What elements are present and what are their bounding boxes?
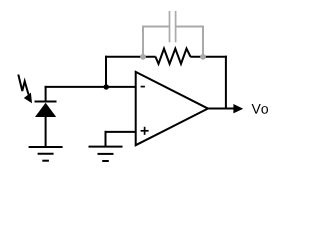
- wire feedback top right: [190, 56, 227, 58]
- wire op-amp noninverting input: [105, 131, 137, 133]
- op-amp plus label: [141, 127, 149, 135]
- wire photodiode top to op-amp inverting input: [45, 86, 136, 88]
- capacitor Cf left plate: [169, 11, 171, 42]
- wire gray top right: [176, 26, 204, 28]
- photodiode D1 cathode bar: [35, 101, 57, 103]
- light arrow (incident light on photodiode): [18, 75, 28, 95]
- resistor Rf zigzag: [156, 49, 191, 64]
- wire gray right riser: [202, 26, 204, 57]
- wire photodiode to ground: [45, 116, 47, 147]
- ground (photodiode): [29, 147, 63, 161]
- output arrowhead: [233, 104, 243, 113]
- capacitor Cf right plate: [175, 11, 177, 42]
- ground (noninverting input): [89, 147, 123, 161]
- capacitor Cf branch (gray): [142, 11, 204, 57]
- node A (junction dot at inverting input): [104, 84, 109, 89]
- gray terminal dot right: [200, 54, 206, 60]
- wire node to feedback top: [105, 56, 107, 87]
- wire op-amp output: [207, 108, 236, 110]
- wire noninverting input to ground: [105, 131, 107, 147]
- wire photodiode anode riser: [45, 86, 47, 102]
- op-amp minus label: [141, 86, 145, 88]
- op-amp U1: [136, 72, 208, 145]
- label Vo: [252, 104, 268, 114]
- wire gray top left: [142, 26, 169, 28]
- gray terminal dot left: [140, 54, 146, 60]
- wire feedback right drop to output: [225, 56, 227, 109]
- wire gray left riser: [142, 26, 144, 57]
- wire feedback top left: [105, 56, 156, 58]
- photodiode D1 triangle: [35, 103, 56, 117]
